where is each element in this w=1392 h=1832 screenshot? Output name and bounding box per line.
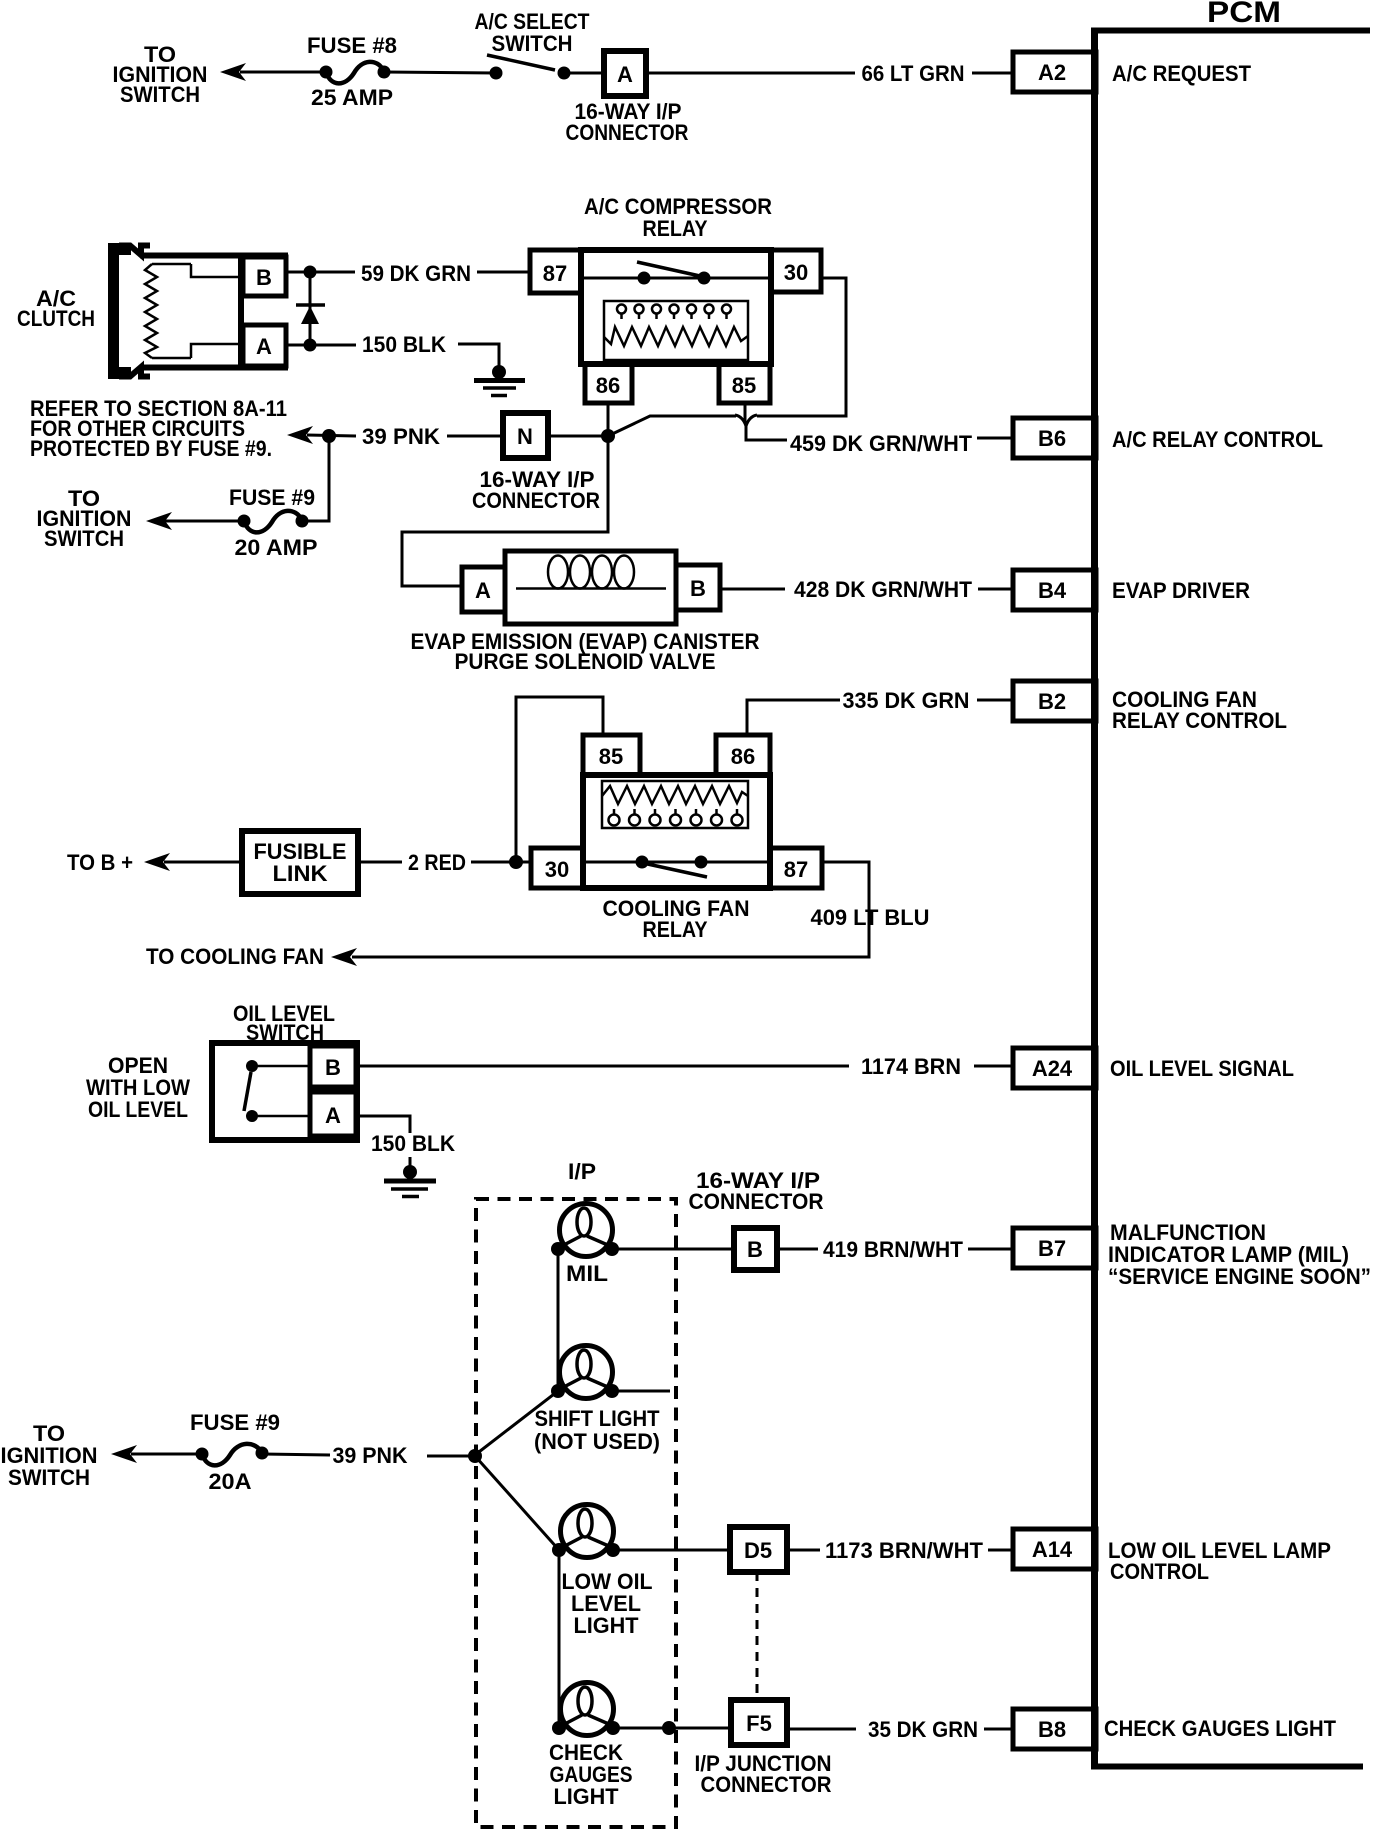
svg-text:35 DK GRN: 35 DK GRN [868,1717,978,1742]
svg-text:OIL LEVEL SIGNAL: OIL LEVEL SIGNAL [1110,1056,1294,1081]
pin B7 label MALFUNCTION INDICATOR LAMP (MIL) "SERVICE ENGINE SOON" [1108,1220,1371,1289]
svg-text:87: 87 [784,857,808,882]
svg-text:66 LT GRN: 66 LT GRN [862,61,965,86]
connector pin B2 [1013,681,1096,721]
svg-text:150 BLK: 150 BLK [371,1131,455,1156]
arrow to fuse 9 note [287,426,313,444]
relay pin 87 [530,250,581,293]
svg-text:FUSE #9: FUSE #9 [229,485,315,510]
A/C compressor relay body [581,250,771,364]
wire node to low oil lamp [475,1456,559,1550]
label A/C COMPRESSOR RELAY [584,194,772,241]
EVAP solenoid valve body [505,551,676,624]
wire 85 into connector [744,403,747,423]
wire arrow to fuse #8 [240,71,326,74]
clutch connector pin A [243,325,286,366]
I/P instrument panel dashed box [476,1199,676,1827]
label A/C CLUTCH [17,286,95,331]
label TO IGNITION SWITCH (fuse 9) [37,486,132,551]
wire check gauges lamp to F5 [613,1727,731,1730]
connector pin A24 [1013,1048,1096,1088]
svg-text:SWITCH: SWITCH [492,31,573,56]
svg-text:39 PNK: 39 PNK [333,1443,408,1468]
svg-text:87: 87 [543,261,567,286]
wire low oil lamp to D5 [613,1549,730,1552]
wire connector B to 419 BRN/WHT [777,1248,818,1251]
lamp MIL [551,1204,619,1257]
label EVAP EMISSION (EVAP) CANISTER PURGE SOLENOID VALVE [411,629,760,674]
wire node down to fuse #9 [306,436,329,521]
relay coil zigzag [604,327,748,346]
svg-text:2 RED: 2 RED [408,850,466,875]
svg-text:SWITCH: SWITCH [8,1465,90,1490]
EVAP valve pin B [676,565,720,610]
svg-text:335 DK GRN: 335 DK GRN [843,688,970,713]
fan relay coil box [602,781,748,828]
svg-text:B2: B2 [1038,689,1066,714]
node diode bottom [304,339,317,352]
arrow to ignition switch (fuse 9) [146,512,172,530]
svg-text:B8: B8 [1038,1717,1066,1742]
svg-text:86: 86 [596,373,620,398]
wire pin A to 150 BLK [286,344,356,347]
svg-text:LIGHT: LIGHT [554,1784,620,1809]
wire shift light stub [612,1390,670,1393]
svg-text:FUSE #9: FUSE #9 [190,1410,280,1435]
svg-text:A: A [256,334,272,359]
svg-text:TO COOLING FAN: TO COOLING FAN [146,944,324,969]
wire 2 RED to fan relay 30 [471,861,531,864]
oil switch pin A [310,1092,356,1136]
svg-text:A: A [475,578,491,603]
wire 66 LT GRN to pin A2 [972,72,1013,75]
label 16-WAY I/P CONNECTOR (B) [689,1168,824,1214]
node fuse 9 tap [322,429,336,443]
wire 459 DK GRN/WHT to pin B6 [977,437,1013,440]
svg-text:86: 86 [731,744,755,769]
relay pin 86 [585,364,632,403]
PCM module outline [1091,30,1370,1767]
wire pin B2 to 335 DK GRN [977,699,1013,702]
oil switch pin B [310,1046,356,1087]
svg-text:59 DK GRN: 59 DK GRN [361,261,471,286]
svg-text:150 BLK: 150 BLK [362,332,446,357]
svg-text:A: A [325,1103,341,1128]
lamp check gauges [552,1683,620,1736]
wire 1174 BRN to pin A24 [974,1065,1013,1068]
relay switch contact [581,262,771,285]
wire N to junction [548,435,604,438]
svg-text:RELAY CONTROL: RELAY CONTROL [1112,708,1287,733]
wire fuse to 39 PNK [262,1454,330,1455]
relay pin 30 [771,250,821,292]
relay coil loops [617,305,731,320]
svg-text:A24: A24 [1032,1056,1073,1081]
connector pin A14 [1013,1529,1096,1569]
pin B2 label COOLING FAN RELAY CONTROL [1112,687,1287,733]
connector D5 [730,1527,787,1572]
svg-text:A/C REQUEST: A/C REQUEST [1112,61,1252,86]
wire 335 DK GRN to fan relay 86 [747,700,840,737]
inline connector V at 85 [735,415,757,426]
wire connector to 459 DK GRN/WHT [746,426,787,440]
svg-text:B: B [747,1237,763,1262]
A/C select switch [487,55,571,80]
clutch connector pin B [243,257,286,296]
connector pin A2 [1013,52,1096,92]
wire D5 to 1173 BRN/WHT [787,1549,820,1552]
svg-text:SHIFT LIGHT: SHIFT LIGHT [535,1406,661,1431]
svg-text:B6: B6 [1038,426,1066,451]
svg-text:20 AMP: 20 AMP [235,535,318,560]
wire B+ node to fan relay 85 [516,697,603,862]
fuse F9 (bottom) [196,1444,269,1466]
node 39 PNK lamp feed [468,1449,482,1463]
svg-text:I/P: I/P [568,1159,596,1184]
svg-text:TO B +: TO B + [67,850,133,875]
EVAP valve pin A [462,567,505,612]
label 16-WAY I/P CONNECTOR (top) [566,99,689,145]
svg-text:F5: F5 [746,1711,772,1736]
svg-text:B: B [325,1055,341,1080]
svg-text:1174 BRN: 1174 BRN [861,1054,961,1079]
svg-text:1173 BRN/WHT: 1173 BRN/WHT [825,1538,984,1563]
svg-text:MIL: MIL [566,1261,608,1286]
wire 428 DK GRN/WHT to pin B4 [978,588,1013,591]
wire fuse #8 to A/C select switch [384,72,496,73]
svg-text:B4: B4 [1038,578,1067,603]
wire connector A to label 66 LT GRN [646,72,855,75]
svg-text:LIGHT: LIGHT [574,1613,640,1638]
svg-text:N: N [517,424,533,449]
label LOW OIL LEVEL LIGHT [562,1569,653,1638]
wire MIL to connector B [612,1248,734,1251]
fusible link [242,831,358,894]
cooling fan relay pin 87 [770,848,822,888]
svg-text:459 DK GRN/WHT: 459 DK GRN/WHT [790,431,973,456]
svg-text:419 BRN/WHT: 419 BRN/WHT [823,1237,964,1262]
oil level switch body [212,1043,357,1140]
label OIL LEVEL SWITCH [233,1001,335,1045]
svg-text:CONNECTOR: CONNECTOR [566,120,689,145]
EVAP solenoid coil [516,556,666,589]
A/C clutch symbol [108,243,288,379]
wire arrow to fusible link [164,861,242,864]
label A/C SELECT SWITCH [475,9,590,56]
fuse F8 [320,62,391,84]
label TO IGNITION SWITCH (bottom) [1,1421,98,1490]
fuse F9 (upper) [238,511,309,533]
connector B (16-way I/P) [734,1228,777,1270]
svg-text:B: B [690,576,706,601]
svg-text:FUSE #8: FUSE #8 [307,33,397,58]
connector pin B7 [1013,1228,1096,1268]
node 39 PNK junction under 86 [601,429,615,443]
svg-text:A: A [617,62,633,87]
label 16-WAY I/P CONNECTOR (N) [472,467,600,513]
wire 150 BLK to ground [458,344,499,366]
svg-text:409 LT BLU: 409 LT BLU [811,905,930,930]
svg-text:CONNECTOR: CONNECTOR [472,488,600,513]
svg-text:PROTECTED BY FUSE #9.: PROTECTED BY FUSE #9. [30,436,272,461]
cooling fan relay pin 86 [716,735,770,775]
svg-text:(NOT USED): (NOT USED) [534,1429,660,1454]
svg-text:20A: 20A [209,1469,252,1494]
svg-text:CONNECTOR: CONNECTOR [701,1772,832,1797]
svg-text:LINK: LINK [273,861,328,886]
label COOLING FAN RELAY [603,896,750,942]
wire 35 DK GRN to pin B8 [984,1728,1013,1731]
fan relay switch contact [583,856,770,878]
wire fuse #9 to arrow [165,520,244,523]
svg-text:B7: B7 [1038,1236,1066,1261]
svg-text:PCM: PCM [1207,0,1281,29]
wire oil switch A to ground [357,1116,410,1133]
cooling fan relay pin 85 [583,735,640,775]
wire relay 30 loop to 85 connector [757,278,846,416]
fan relay coil loops [609,809,743,826]
label TO IGNITION SWITCH (top) [113,42,208,107]
node B+ tap [509,855,523,869]
svg-text:30: 30 [784,260,808,285]
connector pin B8 [1013,1709,1096,1749]
svg-text:SWITCH: SWITCH [44,526,124,551]
svg-text:EVAP DRIVER: EVAP DRIVER [1112,578,1250,603]
svg-text:39 PNK: 39 PNK [362,424,440,449]
svg-text:CONTROL: CONTROL [1110,1559,1209,1584]
wire junction 86 to inline connector [608,403,736,436]
node diode top [304,266,317,279]
wire F5 to 35 DK GRN [787,1728,856,1731]
relay pin 85 [719,364,770,403]
wire fan relay 87 to cooling fan [352,862,869,957]
svg-text:30: 30 [545,857,569,882]
wire shift light to 39 PNK node [475,1391,558,1455]
svg-text:CONNECTOR: CONNECTOR [689,1189,824,1214]
wire pin B to 59 DK GRN [286,271,355,274]
ground (oil level switch) [384,1157,436,1197]
arrow to ignition switch (top) [220,63,246,81]
svg-text:A2: A2 [1038,60,1066,85]
wire arrow to fuse #9 (bottom) [131,1453,202,1456]
wire EVAP B to 428 DK GRN/WHT [720,588,785,591]
svg-text:PURGE SOLENOID VALVE: PURGE SOLENOID VALVE [455,649,716,674]
connector pin B4 [1013,570,1096,610]
relay coil box [604,301,748,360]
svg-text:428 DK GRN/WHT: 428 DK GRN/WHT [794,577,973,602]
arrow to cooling fan [331,948,357,966]
svg-text:RELAY: RELAY [643,216,708,241]
svg-text:CHECK GAUGES LIGHT: CHECK GAUGES LIGHT [1104,1716,1337,1741]
label OPEN WITH LOW OIL LEVEL [86,1053,190,1122]
wire switch to connector A [564,72,604,75]
cooling fan relay body [583,775,770,888]
wire 39 PNK to N [447,435,503,438]
wire low oil lamp to check gauges lamp [558,1550,561,1728]
label SHIFT LIGHT (NOT USED) [534,1406,660,1454]
cooling fan relay pin 30 [531,848,583,888]
connector N (16-way I/P) [503,413,548,458]
wire 419 BRN/WHT to pin B7 [968,1248,1013,1251]
connector A (16-way I/P) [604,51,646,96]
note REFER TO SECTION 8A-11 [30,396,287,461]
svg-text:85: 85 [599,744,623,769]
node at I/P boundary [662,1721,676,1735]
dashed link D5 to F5 [756,1572,759,1700]
label I/P JUNCTION CONNECTOR [695,1751,832,1797]
svg-text:SWITCH: SWITCH [120,82,200,107]
svg-text:D5: D5 [744,1538,772,1563]
arrow to B+ [144,853,170,871]
oil level switch contacts [244,1060,310,1122]
wire 39 PNK to node [427,1455,470,1458]
svg-text:CLUTCH: CLUTCH [17,306,95,331]
wire MIL to shift light [557,1249,560,1391]
svg-text:B: B [256,265,272,290]
wire 1173 BRN/WHT to pin A14 [988,1549,1013,1552]
connector F5 (I/P junction) [731,1700,787,1745]
diode CR (clutch suppression) [296,272,325,347]
svg-text:A14: A14 [1032,1537,1073,1562]
svg-text:25 AMP: 25 AMP [311,85,393,110]
svg-text:“SERVICE ENGINE SOON”: “SERVICE ENGINE SOON” [1108,1264,1371,1289]
lamp shift light [551,1346,619,1399]
svg-text:A/C RELAY CONTROL: A/C RELAY CONTROL [1112,427,1323,452]
connector pin B6 [1013,418,1096,458]
ground (A/C clutch) [474,365,525,396]
wire junction down to EVAP valve [402,441,608,586]
wire 59 DK GRN to relay pin 87 [477,271,530,274]
fan relay coil zigzag [602,786,748,804]
svg-text:85: 85 [732,373,756,398]
lamp low oil level [552,1505,620,1558]
wire fusible link to 2 RED [358,861,402,864]
arrow to ignition switch (bottom) [111,1445,137,1463]
pin A14 label LOW OIL LEVEL LAMP CONTROL [1108,1538,1331,1584]
wire oil switch B to 1174 BRN [357,1065,849,1068]
svg-text:RELAY: RELAY [643,917,708,942]
svg-text:OIL LEVEL: OIL LEVEL [88,1097,188,1122]
label CHECK GAUGES LIGHT (lamp) [549,1740,633,1809]
wire arrow to node [307,435,356,436]
